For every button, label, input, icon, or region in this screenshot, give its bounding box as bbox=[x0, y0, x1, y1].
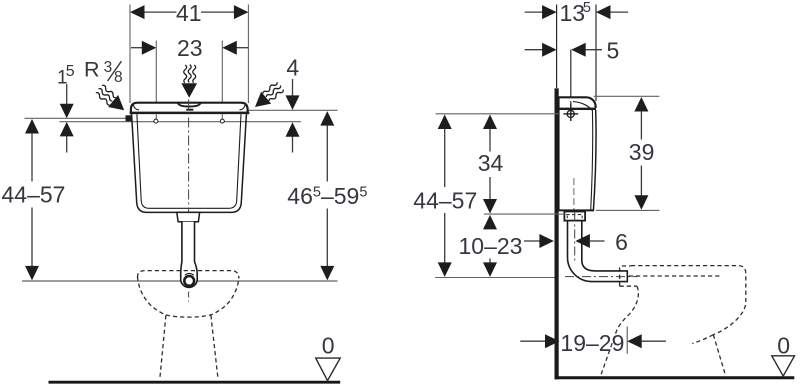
svg-text:0: 0 bbox=[777, 333, 790, 359]
svg-text:0: 0 bbox=[322, 332, 335, 358]
svg-text:13: 13 bbox=[560, 0, 586, 26]
svg-text:8: 8 bbox=[114, 69, 123, 86]
svg-text:3: 3 bbox=[104, 59, 113, 76]
svg-text:465–595: 465–595 bbox=[287, 183, 367, 209]
svg-text:44–57: 44–57 bbox=[2, 182, 66, 208]
svg-text:44–57: 44–57 bbox=[413, 187, 477, 213]
svg-text:19–29: 19–29 bbox=[560, 330, 624, 356]
svg-text:5: 5 bbox=[583, 0, 591, 16]
svg-text:10–23: 10–23 bbox=[459, 233, 523, 259]
svg-text:6: 6 bbox=[615, 229, 628, 255]
svg-text:5: 5 bbox=[607, 38, 620, 64]
svg-text:R: R bbox=[84, 58, 100, 82]
svg-text:39: 39 bbox=[629, 139, 655, 165]
svg-text:4: 4 bbox=[286, 55, 299, 81]
svg-text:5: 5 bbox=[66, 63, 75, 80]
svg-text:34: 34 bbox=[478, 150, 504, 176]
svg-text:41: 41 bbox=[176, 0, 202, 26]
svg-text:23: 23 bbox=[177, 35, 203, 61]
